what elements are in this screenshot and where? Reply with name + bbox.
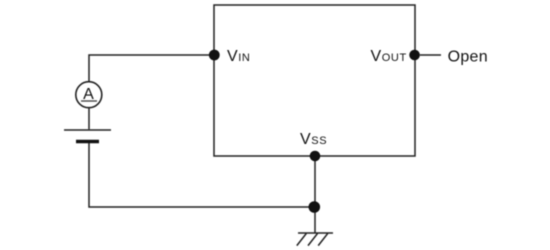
node VSS dot <box>310 151 321 162</box>
svg-text:VSS: VSS <box>300 131 327 148</box>
svg-text:Open: Open <box>448 48 488 65</box>
ammeter A1 <box>76 82 102 108</box>
wire from VIN node left to ammeter <box>89 55 214 82</box>
wire battery to ground rail <box>89 143 315 207</box>
wire ammeter to battery <box>88 108 90 130</box>
svg-text:VOUT: VOUT <box>371 48 407 65</box>
svg-text:VIN: VIN <box>227 48 250 65</box>
wire VOUT to Open <box>420 54 441 56</box>
junction node dot <box>309 201 321 213</box>
battery BT1 <box>64 130 111 142</box>
ground <box>297 233 333 246</box>
IC body U1 <box>214 5 415 156</box>
wire VSS to ground <box>314 156 316 233</box>
node VIN dot <box>209 50 220 61</box>
node VOUT dot <box>409 50 420 61</box>
